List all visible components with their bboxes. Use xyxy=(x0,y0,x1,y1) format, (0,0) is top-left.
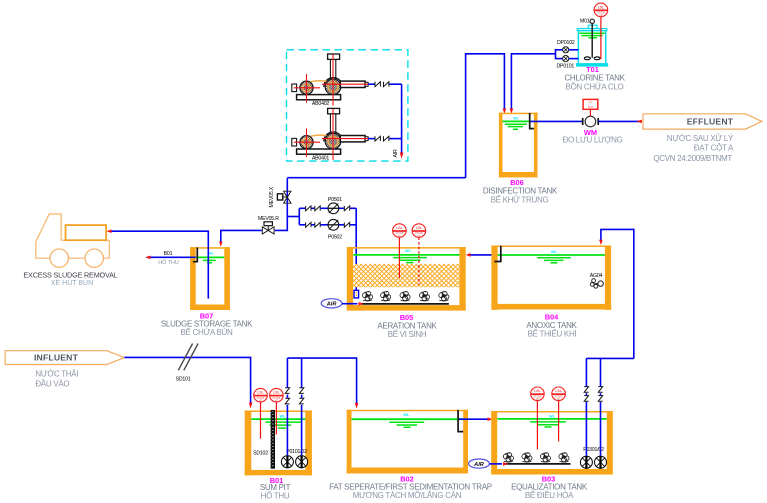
arrow xyxy=(503,109,507,114)
air diffusers B03 xyxy=(503,453,513,463)
svg-text:MƯƠNG TÁCH MỠ/LẮNG CẶN: MƯƠNG TÁCH MỠ/LẮNG CẶN xyxy=(353,491,462,500)
svg-text:CHLORINE TANK: CHLORINE TANK xyxy=(564,74,625,83)
svg-text:F06: F06 xyxy=(588,105,594,109)
svg-text:HỐ THU: HỐ THU xyxy=(261,490,290,500)
svg-text:AG04: AG04 xyxy=(590,273,603,279)
wire influent to B01 xyxy=(124,357,250,403)
wire effluent from B06 to flow meter xyxy=(531,120,582,122)
svg-text:AERATION TANK: AERATION TANK xyxy=(377,321,437,330)
tank B06 disinfection: walls xyxy=(499,113,538,178)
svg-text:DP0101: DP0101 xyxy=(557,64,575,70)
svg-text:AIR: AIR xyxy=(326,302,337,308)
chlorine tank T01 shell xyxy=(576,25,608,66)
level switch instruments B05 xyxy=(393,224,407,238)
svg-text:P0501: P0501 xyxy=(328,197,342,203)
level switch instruments B03 xyxy=(531,387,545,401)
tank B07 sludge storage: walls xyxy=(190,247,230,310)
svg-text:SD102: SD102 xyxy=(253,451,268,457)
liquid level B03 xyxy=(497,418,607,420)
outlet weir B06 xyxy=(530,113,534,129)
wire truck suction from B07 xyxy=(111,231,209,298)
svg-text:QCVN 24:2009/BTNMT: QCVN 24:2009/BTNMT xyxy=(653,154,732,163)
tank B01 sum pit: walls xyxy=(245,411,312,476)
svg-text:WL: WL xyxy=(551,250,558,254)
inlet weir B04 xyxy=(495,246,501,262)
svg-text:AIR: AIR xyxy=(473,462,484,468)
return weir B07 xyxy=(193,247,197,261)
liquid level B01 xyxy=(251,418,305,420)
wire instrument to meter xyxy=(589,109,591,116)
wire P0301/02 discharge into B04 xyxy=(601,229,634,358)
dosing pump DP0101 xyxy=(563,56,569,62)
arrow into B07 xyxy=(219,242,223,247)
arrow into B03 xyxy=(488,417,493,421)
outlet weir B02 xyxy=(458,410,463,432)
svg-text:DISINFECTION TANK: DISINFECTION TANK xyxy=(483,186,558,195)
pump P0501 xyxy=(328,203,339,214)
svg-text:BỂ ĐIỀU HÒA: BỂ ĐIỀU HÒA xyxy=(525,490,574,500)
pump P0101 xyxy=(281,455,293,468)
tank B04 anoxic: walls xyxy=(491,246,611,310)
arrow air out xyxy=(400,153,404,159)
tank B05 aeration: walls xyxy=(347,247,466,311)
wire dosing suction/discharge xyxy=(569,49,579,51)
wire P0102 riser xyxy=(301,405,303,455)
strainer foot xyxy=(354,290,359,298)
wire air to header xyxy=(489,463,502,465)
svg-text:WL: WL xyxy=(405,249,412,253)
instrument box FQI xyxy=(583,99,598,109)
svg-text:BỂ VI SINH: BỂ VI SINH xyxy=(388,330,427,339)
svg-text:MEV05.R: MEV05.R xyxy=(258,216,279,222)
arrow xyxy=(510,109,514,114)
blower AB0401 xyxy=(292,108,368,159)
INFLUENT banner xyxy=(5,351,124,365)
wire junction to P05 pumps xyxy=(287,216,299,218)
pump P0302 xyxy=(595,456,607,469)
air header B03 xyxy=(504,463,571,465)
pump P0102 xyxy=(296,455,308,468)
media crosshatch B05 xyxy=(353,264,459,287)
arrow to truck xyxy=(106,229,111,233)
arrow xyxy=(466,253,471,257)
wire sensor lines xyxy=(398,237,400,278)
flex joint xyxy=(375,82,380,87)
svg-text:WL: WL xyxy=(280,415,287,419)
wire supernatant return to B01 xyxy=(147,256,196,258)
wire pump header to B06 riser xyxy=(287,177,465,179)
pump P0502 xyxy=(328,219,339,230)
node AIR bubble B05 xyxy=(321,299,342,308)
pump P0502 branch xyxy=(299,224,305,226)
wire air manifold down xyxy=(401,84,403,153)
pump P0301 xyxy=(580,456,592,469)
svg-text:WL: WL xyxy=(513,116,520,120)
basket screen SD102 xyxy=(271,411,274,469)
svg-text:MEV05.X: MEV05.X xyxy=(269,186,275,207)
level switch instruments B01 xyxy=(254,388,268,402)
svg-text:DP0102: DP0102 xyxy=(557,40,575,46)
svg-text:ĐO LƯU LƯỢNG: ĐO LƯU LƯỢNG xyxy=(562,136,622,145)
svg-text:ANOXIC TANK: ANOXIC TANK xyxy=(526,321,577,330)
wire B04 to B05 xyxy=(469,254,493,256)
arrow xyxy=(359,302,364,306)
svg-text:BỂ THIẾU KHÍ: BỂ THIẾU KHÍ xyxy=(528,329,578,339)
svg-text:ĐẦU VÀO: ĐẦU VÀO xyxy=(35,379,69,389)
dosing pump DP0102 xyxy=(563,47,569,53)
svg-text:B01: B01 xyxy=(164,251,173,257)
svg-text:AIR: AIR xyxy=(393,149,399,158)
tank B02 fat separator: walls xyxy=(347,410,468,474)
svg-text:EFFLUENT: EFFLUENT xyxy=(687,117,734,127)
blower enclosure (dashed cyan box) xyxy=(287,50,408,161)
svg-text:AB0401: AB0401 xyxy=(312,155,330,161)
svg-text:BỒN CHỨA CLO: BỒN CHỨA CLO xyxy=(566,82,624,92)
svg-text:NƯỚC THẢI: NƯỚC THẢI xyxy=(35,369,78,378)
pump P0501 branch xyxy=(299,207,305,209)
liquid level B02 xyxy=(352,418,464,420)
liquid level B05 xyxy=(353,254,459,256)
wire instrument sensing line xyxy=(600,17,602,59)
wire sensor lines xyxy=(260,402,262,439)
wire xyxy=(390,83,402,85)
svg-text:HỐ THU: HỐ THU xyxy=(158,259,179,266)
wire blower AB0402 discharge xyxy=(368,83,375,85)
wire sludge return to B07 xyxy=(221,230,262,242)
wire treated water inlet to B06 xyxy=(466,54,505,178)
arrow xyxy=(637,120,642,124)
arrow xyxy=(599,240,603,245)
truck (excess sludge removal) xyxy=(36,214,110,267)
wire xyxy=(390,138,402,140)
wire chlorine feed to B06 xyxy=(511,54,555,110)
air header B05 xyxy=(362,303,449,305)
wire P0302 riser xyxy=(600,402,602,456)
svg-text:INFLUENT: INFLUENT xyxy=(34,353,79,363)
liquid level B04 xyxy=(498,254,605,256)
flex joint xyxy=(375,136,380,141)
svg-text:BỂ KHỬ TRÙNG: BỂ KHỬ TRÙNG xyxy=(491,196,549,205)
svg-text:EXCESS SLUDGE REMOVAL: EXCESS SLUDGE REMOVAL xyxy=(23,270,117,279)
air diffusers B05 xyxy=(363,291,373,301)
wire P0301 riser xyxy=(585,402,587,456)
svg-text:NƯỚC SAU XỬ LÝ: NƯỚC SAU XỬ LÝ xyxy=(667,134,734,143)
wire B01 discharge header to B02 xyxy=(287,358,356,404)
mixer M01 xyxy=(584,19,600,60)
level instrument on T01 xyxy=(594,3,608,17)
arrow xyxy=(503,462,508,466)
wire blower AB0401 discharge xyxy=(368,138,375,140)
wire air to header xyxy=(342,303,358,305)
arrow xyxy=(145,256,150,260)
svg-text:ĐẠT CỘT A: ĐẠT CỘT A xyxy=(694,144,734,153)
valve MEV05.X xyxy=(277,178,291,216)
node AIR bubble B03 xyxy=(469,459,490,468)
wire P05 suction drop into B05 xyxy=(355,208,357,290)
svg-text:WL: WL xyxy=(403,413,410,417)
liquid level in T01 xyxy=(579,32,604,34)
arrow into B01 xyxy=(249,403,253,409)
wire sensor lines xyxy=(536,401,538,450)
wire B02 to B03 xyxy=(459,418,489,420)
svg-text:BỂ CHỨA BÙN: BỂ CHỨA BÙN xyxy=(181,328,234,337)
blower AB0402 xyxy=(292,54,368,106)
liquid level B07 xyxy=(196,256,225,258)
svg-text:AB0402: AB0402 xyxy=(312,101,330,107)
liquid level B06 xyxy=(503,120,530,122)
EFFLUENT banner xyxy=(643,114,762,129)
svg-text:WL: WL xyxy=(549,414,556,418)
wire junction down to MEV05.R line xyxy=(275,217,288,231)
svg-text:XE HÚT BÙN: XE HÚT BÙN xyxy=(51,278,93,287)
wire P0101 riser xyxy=(286,405,288,455)
screen SD101 xyxy=(178,344,192,371)
flow meter WM xyxy=(583,116,599,127)
tank B03 equalization: walls xyxy=(491,411,613,475)
svg-text:SD101: SD101 xyxy=(176,377,191,383)
arrow into B02 xyxy=(355,403,359,409)
svg-text:M01: M01 xyxy=(580,18,590,24)
svg-text:P0502: P0502 xyxy=(328,235,342,241)
valve MEV05.R xyxy=(262,222,274,234)
wire effluent to banner xyxy=(598,120,640,122)
wire B03 discharge header xyxy=(586,357,633,359)
svg-text:P0101/02: P0101/02 xyxy=(286,449,307,455)
